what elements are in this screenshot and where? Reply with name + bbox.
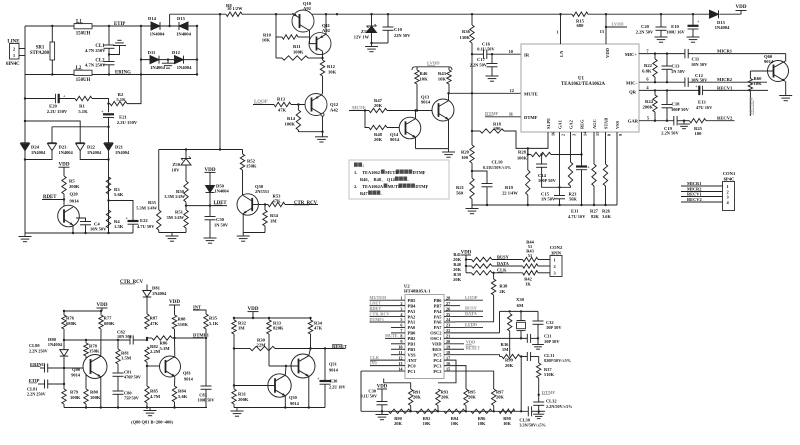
resistor SR1 STPA200 <box>50 42 55 60</box>
svg-text:20K: 20K <box>441 395 449 400</box>
wire U2 left stub <box>391 354 405 356</box>
wire Q81 collector <box>174 338 176 357</box>
junction <box>284 406 286 408</box>
wire Q13 collector to MUTE line <box>448 93 450 100</box>
svg-text:51: 51 <box>528 253 532 258</box>
svg-text:R20: R20 <box>461 150 470 155</box>
svg-text:U2: U2 <box>404 283 410 288</box>
wire y127 row <box>52 126 109 128</box>
wire MUTE to IC <box>449 92 522 94</box>
svg-text:2N5551: 2N5551 <box>255 189 269 194</box>
svg-text:200K: 200K <box>238 397 249 402</box>
resistor R47 20K <box>369 108 387 112</box>
junction <box>51 25 53 27</box>
svg-text:Q81: Q81 <box>183 370 191 375</box>
junction <box>520 410 522 412</box>
resistor R39 20K <box>466 272 472 274</box>
transistor Q11 A92 <box>309 33 331 55</box>
svg-text:PA5: PA5 <box>434 314 443 319</box>
svg-text:20K: 20K <box>468 395 476 400</box>
junction <box>309 347 311 349</box>
svg-text:PC3: PC3 <box>433 363 442 368</box>
wire bridge right vertical <box>196 26 198 75</box>
wire U2 OSC1 <box>444 337 527 339</box>
junction <box>538 410 540 412</box>
junction <box>509 310 511 312</box>
junction <box>85 339 87 341</box>
svg-text:100P 50V: 100P 50V <box>198 397 215 402</box>
svg-text:22 1/4W: 22 1/4W <box>502 190 518 195</box>
wire Q80 emitter <box>100 377 102 408</box>
capacitor C83 100P 50V <box>205 338 207 386</box>
wire U2 left stub <box>391 326 405 328</box>
resistor R79 100K <box>63 384 65 389</box>
svg-text:R43: R43 <box>438 71 447 76</box>
svg-text:1N4004: 1N4004 <box>715 25 731 30</box>
diode D80 1N4004 <box>60 350 69 357</box>
junction <box>140 73 142 75</box>
svg-text:R24: R24 <box>645 99 654 104</box>
svg-text:OSC1: OSC1 <box>430 336 441 341</box>
ground near CL1 <box>113 45 126 47</box>
svg-text:5.6K: 5.6K <box>178 394 188 399</box>
capacitor C82 10N 50V <box>129 336 131 345</box>
wire CON1 RECV1 <box>681 196 723 198</box>
svg-text:R36: R36 <box>462 29 471 34</box>
resistor R55 5.3M 1/4W <box>157 210 161 230</box>
svg-text:1N4004: 1N4004 <box>177 65 193 70</box>
svg-text:TEA1062/TEA1062A: TEA1062/TEA1062A <box>561 82 606 87</box>
junction <box>604 204 606 206</box>
junction <box>414 109 416 111</box>
resistor R34 47K <box>310 318 312 320</box>
resistor R24 200K <box>654 90 656 95</box>
junction <box>321 57 323 59</box>
svg-text:47K: 47K <box>278 108 287 113</box>
svg-text:L2: L2 <box>76 66 82 71</box>
wire Q14 collector <box>415 111 417 119</box>
svg-text:VSS: VSS <box>408 352 417 357</box>
svg-text:C17: C17 <box>477 57 486 62</box>
junction <box>168 25 170 27</box>
junction <box>309 317 311 319</box>
junction <box>297 103 299 105</box>
svg-text:10N 50V: 10N 50V <box>117 334 132 339</box>
svg-text:11: 11 <box>509 111 513 116</box>
power VDD top right <box>740 11 742 15</box>
junction <box>325 13 327 15</box>
junction <box>108 73 110 75</box>
capacitor C30 0.1U 50V <box>377 401 388 403</box>
resistor R8 10 1/2W <box>226 12 242 16</box>
junction <box>219 13 221 15</box>
pin GA1 2 <box>559 132 561 196</box>
svg-text:RDET: RDET <box>370 306 382 311</box>
svg-text:PA3: PA3 <box>408 309 417 314</box>
svg-text:STPA200: STPA200 <box>30 51 50 56</box>
note text line1 <box>354 163 358 167</box>
svg-text:1K: 1K <box>525 281 531 286</box>
transistor Q14 9014 <box>399 117 421 139</box>
capacitor E10 100U 16V electrolytic <box>692 14 694 26</box>
svg-text:E10: E10 <box>671 24 679 29</box>
junction <box>324 347 326 349</box>
junction <box>185 204 187 206</box>
junction <box>580 153 582 155</box>
svg-text:10N 50V: 10N 50V <box>691 77 708 82</box>
svg-text:,: , <box>368 177 369 182</box>
svg-text:10K: 10K <box>451 421 459 426</box>
svg-text:13: 13 <box>398 361 402 366</box>
junction <box>51 73 53 75</box>
wire TEA bottom ground rail <box>472 204 617 206</box>
svg-text:10K: 10K <box>328 69 337 74</box>
capacitor C10 22N 50V <box>387 14 389 27</box>
wire GAR / RECV2 <box>639 120 674 122</box>
svg-text:VDD: VDD <box>169 299 180 305</box>
resistor R78 150K <box>85 340 87 343</box>
svg-text:R14: R14 <box>287 116 296 121</box>
svg-text:390: 390 <box>494 126 502 131</box>
inductor L1 150UH <box>74 24 92 29</box>
wire DTMF to IC <box>485 116 521 118</box>
junction <box>364 109 366 111</box>
resistor R43 51 <box>523 264 538 268</box>
svg-text:680K: 680K <box>104 321 115 326</box>
wire R1 to vertical <box>92 99 109 113</box>
capacitor C32 10P 50V <box>537 311 539 321</box>
junction <box>471 53 473 55</box>
capacitor CL80 2.2N 250V <box>40 367 45 369</box>
svg-text:10K: 10K <box>262 38 271 43</box>
ground C30 <box>381 411 383 414</box>
svg-text:R21: R21 <box>456 185 465 190</box>
net label MUTEM vertical <box>749 91 751 116</box>
svg-text:3.3N/50V/±5%: 3.3N/50V/±5% <box>519 423 545 428</box>
svg-text:CLK: CLK <box>370 355 380 360</box>
svg-text:PA2: PA2 <box>408 314 417 319</box>
svg-text:1N4004: 1N4004 <box>152 291 167 296</box>
resistor R23 56K <box>568 162 572 186</box>
svg-text:20K: 20K <box>496 395 504 400</box>
svg-text:CTR_RCV: CTR_RCV <box>370 311 390 316</box>
wire Q13/Q14 emitter bus <box>416 148 449 150</box>
junction <box>233 384 235 386</box>
diode D12 1N4004 <box>175 56 184 64</box>
svg-text:7: 7 <box>400 328 402 333</box>
resistor R11 100K <box>282 56 308 60</box>
svg-text:PA0: PA0 <box>408 325 417 330</box>
svg-text:PA6: PA6 <box>434 320 443 325</box>
svg-text:100K: 100K <box>285 121 296 126</box>
junction <box>654 120 656 122</box>
wire CL1-CL2 midpoint tap <box>109 46 120 55</box>
pin VSS 9 <box>616 132 618 205</box>
ground ladder rail end <box>538 412 540 415</box>
resistor R31 200K <box>232 389 236 404</box>
wire LOOP <box>253 104 274 106</box>
svg-text:12: 12 <box>398 355 402 360</box>
svg-text:2: 2 <box>400 301 402 306</box>
svg-text:9014: 9014 <box>390 137 400 142</box>
svg-text:LOOP: LOOP <box>465 295 478 300</box>
junction <box>666 120 668 122</box>
resistor R3 5.6K <box>106 177 110 194</box>
junction <box>107 158 109 160</box>
svg-text:HT48R05A-1: HT48R05A-1 <box>404 289 431 294</box>
ground TEA rail <box>471 205 473 209</box>
junction <box>209 204 211 206</box>
svg-text:1.5M: 1.5M <box>121 356 132 361</box>
resistor R19 22 1/4W <box>527 148 529 170</box>
wire CTR_RCV to D81 <box>146 285 148 291</box>
svg-text:MICR1: MICR1 <box>687 181 701 186</box>
resistor R28 100K <box>528 148 531 154</box>
wire MIC- / MICR2 <box>639 81 685 83</box>
capacitor CL30 3.3N/50V series <box>527 406 529 416</box>
junction <box>520 310 522 312</box>
svg-text:GA2: GA2 <box>569 119 574 129</box>
resistor R12 10K <box>322 51 324 60</box>
note box <box>349 160 449 199</box>
pin SLPE 16 <box>528 132 548 148</box>
junction <box>666 81 668 83</box>
wire U2 left MUTEM <box>370 299 406 301</box>
junction <box>538 394 540 396</box>
svg-text:E13: E13 <box>698 99 706 104</box>
junction <box>465 410 467 412</box>
junction <box>540 153 542 155</box>
capacitor CL1 4.7N 250V <box>108 26 110 45</box>
resistor R1 5.1K <box>75 96 92 100</box>
diode D81 1N4004 <box>143 291 152 298</box>
junction <box>593 204 595 206</box>
svg-text:RESET: RESET <box>332 344 347 349</box>
zener Z10 12V 1W <box>371 14 373 26</box>
svg-text:6.8K: 6.8K <box>642 68 652 73</box>
wire R34 down <box>310 334 312 349</box>
resistor R94 10K <box>444 409 465 413</box>
svg-text:CON2: CON2 <box>550 245 563 250</box>
svg-text:C18: C18 <box>672 102 681 107</box>
pin AGC 15 <box>593 132 595 164</box>
svg-text:6P4C: 6P4C <box>724 176 735 181</box>
wire Q11 emitter to rail <box>325 14 327 34</box>
wire VDD rail R76/R77 <box>64 310 102 312</box>
junction <box>654 81 656 83</box>
resistor R88 510K <box>172 315 176 329</box>
svg-text:A42: A42 <box>330 107 339 112</box>
wire Q20 to C4 <box>76 218 86 222</box>
wire to E22 <box>109 201 134 222</box>
svg-text:4.7M: 4.7M <box>150 394 161 399</box>
resistor R80 100K <box>84 389 88 404</box>
svg-text:A92: A92 <box>322 28 331 33</box>
wire R35 to DTMF1 <box>205 329 207 338</box>
svg-text:R28: R28 <box>518 150 527 155</box>
junction <box>63 198 65 200</box>
svg-text:2.2U 150V: 2.2U 150V <box>47 109 68 114</box>
svg-text:1N4004: 1N4004 <box>31 150 46 155</box>
resistor R91 20K <box>409 389 413 406</box>
resistor R95 20K <box>464 389 468 406</box>
wire bridge left vertical <box>140 26 142 75</box>
svg-text:1N4004: 1N4004 <box>150 65 166 70</box>
svg-text:47K: 47K <box>314 326 323 331</box>
svg-text:R47: R47 <box>360 191 368 196</box>
wire rail to R10 <box>275 14 277 58</box>
junction <box>486 204 488 206</box>
svg-text:2.2U 10V: 2.2U 10V <box>329 385 346 390</box>
wire U2 left DTMF1 <box>370 321 406 323</box>
svg-text:DTMF: DTMF <box>524 115 538 120</box>
svg-text:MICR1: MICR1 <box>717 48 733 53</box>
wire E20 to R1 <box>59 98 75 100</box>
capacitor C20 2.2N 50V <box>660 14 662 27</box>
junction <box>140 25 142 27</box>
svg-text:8: 8 <box>607 134 612 136</box>
wire reset bottom rail <box>234 407 325 409</box>
svg-text:VDD: VDD <box>59 162 70 168</box>
wire y149.5 top of Z50 block <box>159 149 243 151</box>
wire R43 down <box>448 84 450 93</box>
svg-text:IR: IR <box>524 52 530 57</box>
svg-text:LDET: LDET <box>214 201 228 206</box>
svg-text:10K: 10K <box>503 421 511 426</box>
resistor R82 2.2M <box>145 347 149 362</box>
svg-text:130K: 130K <box>460 35 471 40</box>
svg-text:28: 28 <box>446 295 450 300</box>
svg-text:20K: 20K <box>505 363 514 368</box>
junction <box>252 317 254 319</box>
svg-text:GA1: GA1 <box>558 120 563 129</box>
crystal X30 body <box>520 311 522 320</box>
transistor Q30 9014 <box>268 374 291 397</box>
svg-text:20K: 20K <box>374 103 383 108</box>
wire U2 PC5 <box>444 355 500 357</box>
resistor R5 200K <box>62 176 66 194</box>
junction <box>196 73 198 75</box>
svg-text:510K: 510K <box>544 372 555 377</box>
junction <box>410 410 412 412</box>
svg-text:1M: 1M <box>270 218 277 223</box>
svg-text:9014: 9014 <box>70 199 80 204</box>
svg-text:U1: U1 <box>578 77 584 82</box>
transistor Q80 9014 <box>83 355 107 379</box>
junction <box>63 367 65 369</box>
wire U2 LOOP <box>444 299 483 301</box>
wire ladder rail <box>361 410 528 412</box>
svg-text:R27: R27 <box>590 208 599 213</box>
svg-text:PB5: PB5 <box>408 298 417 303</box>
junction <box>558 186 560 188</box>
ground C17 <box>491 67 493 76</box>
svg-text:26: 26 <box>446 306 450 311</box>
wire U2 left /INT <box>370 365 405 367</box>
wire C82 row <box>64 339 130 341</box>
svg-text:MICR2: MICR2 <box>717 77 733 82</box>
junction <box>233 347 235 349</box>
capacitor C18 300P 50V <box>666 90 668 104</box>
svg-text:10: 10 <box>398 344 402 349</box>
svg-text:6: 6 <box>400 323 402 328</box>
junction <box>387 13 389 15</box>
svg-text:R19: R19 <box>505 185 514 190</box>
junction <box>219 148 221 150</box>
svg-text:2.2N 50V: 2.2N 50V <box>661 131 679 136</box>
svg-text:22M: 22M <box>257 342 267 347</box>
svg-text:20K: 20K <box>394 421 402 426</box>
svg-text:CL32: CL32 <box>546 399 557 404</box>
capacitor CL2 4.7N 250V <box>108 48 110 61</box>
svg-text:680K: 680K <box>66 321 77 326</box>
junction <box>605 13 607 15</box>
junction <box>447 92 449 94</box>
junction <box>196 58 198 60</box>
junction <box>167 58 169 60</box>
junction <box>416 109 418 111</box>
svg-text:1N 50V: 1N 50V <box>214 222 229 227</box>
svg-text:1N 50V: 1N 50V <box>671 69 686 74</box>
svg-text:1.: 1. <box>354 170 357 175</box>
wire Q60 base <box>750 70 773 72</box>
svg-text:16: 16 <box>551 132 556 136</box>
svg-text:E11: E11 <box>571 208 579 213</box>
junction <box>107 232 109 234</box>
svg-text:25: 25 <box>446 312 450 317</box>
resistor R85 4.7M <box>145 386 149 403</box>
wire D21 column down <box>108 160 110 234</box>
svg-text:510K: 510K <box>178 322 189 327</box>
wire LDET row <box>185 202 187 206</box>
wire R18 to R19 node <box>504 131 528 148</box>
svg-text:VDD: VDD <box>605 47 610 58</box>
resistor R15 680 <box>572 12 588 16</box>
capacitor C80 75P 50V <box>117 376 119 391</box>
capacitor C4 10N 50V <box>80 221 91 223</box>
ground C20 <box>655 36 668 38</box>
diode D21 1N4004 <box>104 144 113 151</box>
resistor R18 390 <box>472 130 480 132</box>
svg-text:300P 50V: 300P 50V <box>671 107 690 112</box>
svg-text:LN: LN <box>559 50 564 57</box>
svg-text:MUTE: MUTE <box>524 91 538 96</box>
wire Q13 emitter <box>448 119 450 148</box>
resistor R13 47K <box>274 102 291 106</box>
ground bottom left <box>24 233 26 237</box>
svg-text:PA1: PA1 <box>408 320 416 325</box>
junction <box>100 310 102 312</box>
wire left vertical bus <box>24 26 26 143</box>
ground block1 <box>149 408 151 411</box>
wire Q14 emitter <box>415 137 417 148</box>
junction <box>580 204 582 206</box>
wire Q30 collector to Q31 base <box>284 366 287 375</box>
svg-text:20K: 20K <box>413 395 421 400</box>
svg-text:VSS: VSS <box>615 120 620 129</box>
wire D14-D15 node to top rail <box>169 14 171 26</box>
svg-text:2.: 2. <box>354 184 357 189</box>
wire ladder left riser <box>360 371 362 411</box>
resistor R25 100 <box>690 119 707 123</box>
svg-text:R13: R13 <box>277 97 286 102</box>
wire Q50 base <box>252 204 268 206</box>
ground under C50 <box>209 220 211 238</box>
svg-text:9014: 9014 <box>184 377 194 382</box>
junction <box>24 120 26 122</box>
capacitor CL81 2.2N 250V <box>38 383 45 385</box>
ground reset block <box>236 408 238 412</box>
